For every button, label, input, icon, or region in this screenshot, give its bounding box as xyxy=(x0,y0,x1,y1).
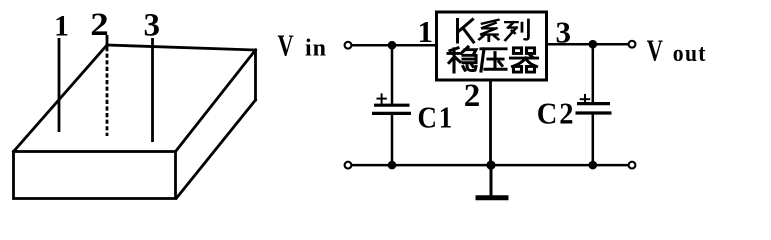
svg-text:2: 2 xyxy=(90,6,108,43)
junction: rail / pin 2 xyxy=(486,161,495,170)
svg-text:out: out xyxy=(673,40,707,66)
wire: junction down to C1 xyxy=(391,45,394,104)
glyph 列 xyxy=(505,20,528,40)
pin 2 lead xyxy=(106,35,109,136)
svg-text:2: 2 xyxy=(464,78,481,114)
pin 3 lead xyxy=(151,38,154,142)
junction: rail / C1 xyxy=(388,161,397,170)
junction: rail / C2 xyxy=(589,161,598,170)
IC package right side face xyxy=(177,50,256,198)
junction: input wire / C1 xyxy=(388,41,397,50)
C2 polarity plus xyxy=(580,94,591,105)
svg-text:V: V xyxy=(647,33,664,67)
wire: input terminal to regulator pin 1 xyxy=(352,44,438,47)
ground rail left terminal xyxy=(345,162,352,169)
junction: output wire / C2 xyxy=(589,40,598,49)
svg-text:C2: C2 xyxy=(537,96,576,130)
capacitor C1 xyxy=(372,105,411,113)
ground symbol xyxy=(476,165,509,198)
capacitor C2 xyxy=(576,104,612,113)
C1 polarity plus xyxy=(377,93,387,103)
glyph 器 xyxy=(511,48,538,72)
regulator pin 2 lead xyxy=(489,80,492,165)
glyph 系 xyxy=(479,20,498,41)
input terminal xyxy=(345,42,352,49)
svg-text:in: in xyxy=(305,36,327,62)
ground rail wire xyxy=(352,164,629,167)
svg-text:1: 1 xyxy=(418,14,434,49)
output terminal xyxy=(629,41,636,48)
wire: junction down to C2 xyxy=(592,44,595,102)
letter K xyxy=(458,20,474,43)
node Vin label xyxy=(278,28,328,62)
svg-text:V: V xyxy=(278,28,295,62)
regulator U1 box xyxy=(437,12,547,80)
regulator text line 2: 稳压器 xyxy=(448,47,538,72)
node Vout label xyxy=(647,33,707,67)
IC package front face xyxy=(14,152,176,199)
svg-text:3: 3 xyxy=(144,8,161,44)
glyph 稳 xyxy=(448,47,476,72)
pin 1 lead xyxy=(58,38,61,132)
ground rail right terminal xyxy=(629,162,636,169)
wire: C2 to ground rail xyxy=(592,113,595,165)
wire: regulator pin 3 to output terminal xyxy=(547,43,629,46)
regulator text line 1: K系列 xyxy=(458,20,529,43)
svg-text:C1: C1 xyxy=(418,101,454,135)
svg-text:1: 1 xyxy=(54,10,69,43)
wire: C1 to ground rail xyxy=(391,113,394,165)
IC package top face xyxy=(14,45,256,152)
glyph 压 xyxy=(481,49,506,71)
